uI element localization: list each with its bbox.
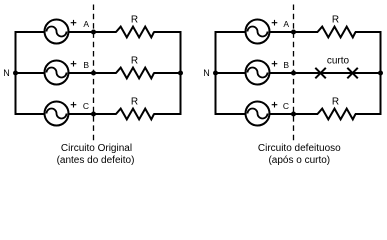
wire: phase B row (left circuit) [15, 72, 117, 74]
short-circuit X mark 1 (phase B, right circuit) [315, 68, 326, 79]
wire: phase A resistor to bus (left circuit) [154, 31, 182, 33]
short-circuit X mark 2 (phase B, right circuit) [347, 68, 358, 79]
svg-text:R: R [332, 15, 339, 26]
ac source phase A (right circuit) [246, 20, 270, 44]
plus sign (phase B source, right circuit) [272, 61, 278, 67]
wire: phase C resistor to bus (right circuit) [355, 113, 382, 115]
wire: phase B resistor to bus (left circuit) [154, 72, 182, 74]
node B dot (right circuit) [291, 71, 296, 76]
resistor R (phase C, left circuit) [116, 109, 154, 120]
dashed separator line (left circuit) [93, 5, 95, 141]
svg-text:A: A [83, 19, 89, 29]
svg-text:C: C [83, 101, 89, 111]
svg-text:C: C [283, 101, 289, 111]
resistor R (phase A, right circuit) [318, 27, 356, 38]
svg-text:B: B [83, 60, 89, 70]
svg-text:B: B [283, 60, 289, 70]
wire: right bus (right circuit) [380, 31, 382, 115]
svg-text:R: R [332, 97, 339, 108]
plus sign (phase C source, right circuit) [272, 102, 278, 108]
svg-text:N: N [3, 68, 10, 78]
dashed separator line (right circuit) [293, 5, 295, 141]
wire: left bus (left circuit) [15, 31, 17, 115]
node A dot (right circuit) [291, 30, 296, 35]
wire: phase A row (left circuit) [15, 31, 117, 33]
svg-text:R: R [131, 56, 138, 67]
node N junction dot (left circuit) [13, 71, 18, 76]
ac source phase C (right circuit) [246, 102, 270, 126]
wire: right bus (left circuit) [180, 31, 182, 115]
junction dot right bus (right circuit) [378, 71, 383, 76]
wire: phase C row (right circuit) [215, 113, 319, 115]
resistor R (phase A, left circuit) [116, 27, 154, 38]
svg-text:R: R [131, 97, 138, 108]
node A dot (left circuit) [91, 30, 96, 35]
node C dot (left circuit) [91, 112, 96, 117]
wire: phase C resistor to bus (left circuit) [154, 113, 182, 115]
node C dot (right circuit) [291, 112, 296, 117]
wire: left bus (right circuit) [215, 31, 217, 115]
node B dot (left circuit) [91, 71, 96, 76]
ac source phase B (left circuit) [45, 61, 69, 85]
svg-text:(após o curto): (após o curto) [268, 155, 330, 166]
svg-text:A: A [283, 19, 289, 29]
plus sign (phase A source, right circuit) [272, 20, 278, 26]
svg-text:N: N [203, 68, 210, 78]
ac source phase C (left circuit) [45, 102, 69, 126]
svg-text:curto: curto [327, 56, 350, 67]
wire: phase B shorted row (right circuit) [215, 72, 382, 74]
resistor R (phase C, right circuit) [318, 109, 356, 120]
wire: phase A row (right circuit) [215, 31, 319, 33]
svg-text:R: R [131, 15, 138, 26]
ac source phase A (left circuit) [45, 20, 69, 44]
ac source phase B (right circuit) [246, 61, 270, 85]
plus sign (phase C source, left circuit) [71, 102, 77, 108]
svg-text:Circuito defeituoso: Circuito defeituoso [258, 143, 341, 154]
wire: phase A resistor to bus (right circuit) [355, 31, 382, 33]
svg-text:Circuito Original: Circuito Original [61, 143, 132, 154]
svg-text:(antes do defeito): (antes do defeito) [57, 155, 135, 166]
wire: phase C row (left circuit) [15, 113, 117, 115]
resistor R (phase B, left circuit) [116, 68, 154, 79]
plus sign (phase A source, left circuit) [71, 20, 77, 26]
node N junction dot (right circuit) [213, 71, 218, 76]
junction dot right bus (left circuit) [178, 71, 183, 76]
plus sign (phase B source, left circuit) [71, 61, 77, 67]
